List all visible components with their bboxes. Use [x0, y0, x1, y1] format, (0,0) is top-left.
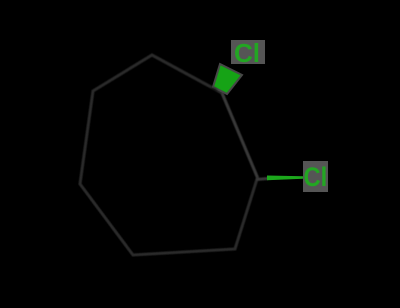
svg-text:Cl: Cl: [234, 38, 260, 68]
svg-text:Cl: Cl: [304, 163, 328, 193]
